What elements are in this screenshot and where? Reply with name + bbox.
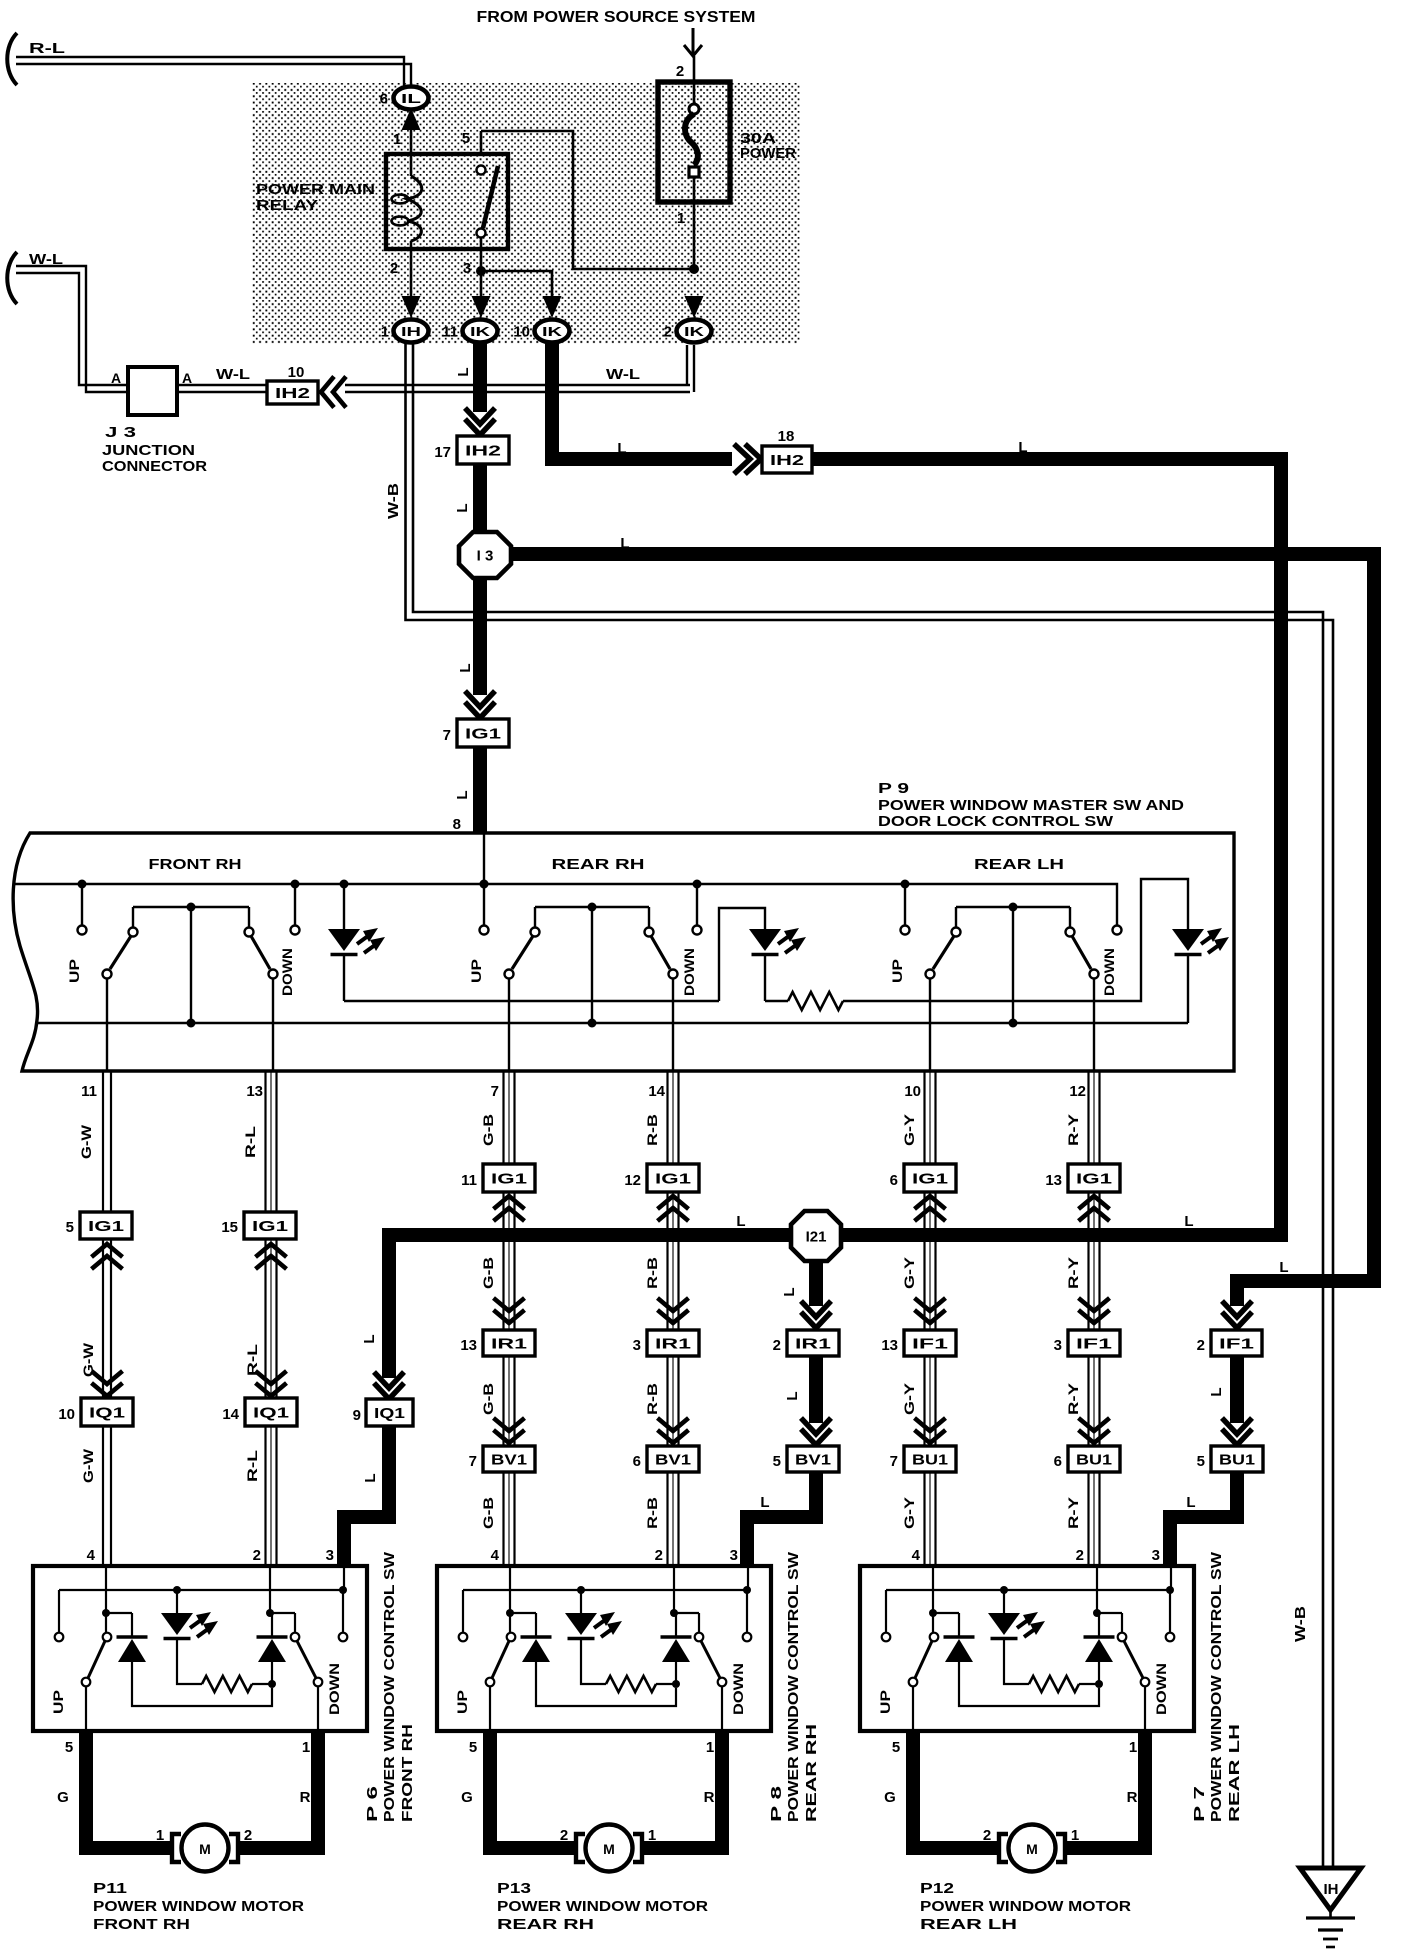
- svg-text:POWER: POWER: [740, 145, 796, 162]
- connector 5 IG1: [66, 1212, 132, 1239]
- svg-text:G-W: G-W: [80, 1448, 96, 1483]
- svg-text:2: 2: [560, 1827, 568, 1844]
- UP DOWN labels: [877, 1663, 1169, 1715]
- svg-text:1: 1: [1071, 1827, 1079, 1844]
- P9 FRONT RH switch: [66, 880, 300, 1072]
- svg-text:G-B: G-B: [480, 1497, 496, 1529]
- svg-text:IG1: IG1: [88, 1218, 124, 1235]
- wire W-B to ground: [406, 344, 1334, 1868]
- svg-text:REAR RH: REAR RH: [497, 1916, 594, 1933]
- svg-text:IG1: IG1: [465, 725, 501, 742]
- svg-text:UP: UP: [454, 1690, 470, 1714]
- svg-text:IL: IL: [401, 91, 421, 106]
- svg-text:G: G: [884, 1789, 896, 1806]
- svg-text:DOWN: DOWN: [730, 1663, 746, 1715]
- svg-text:IF1: IF1: [1076, 1335, 1112, 1352]
- pin 4 wire: [506, 1566, 514, 1633]
- svg-text:P 9: P 9: [878, 780, 909, 797]
- svg-text:R-L: R-L: [244, 1449, 260, 1482]
- svg-text:14: 14: [648, 1083, 665, 1100]
- svg-text:REAR LH: REAR LH: [1226, 1724, 1243, 1822]
- right stub contact: [743, 1566, 752, 1641]
- svg-text:FRONT RH: FRONT RH: [149, 856, 242, 873]
- svg-text:DOWN: DOWN: [1101, 948, 1117, 996]
- svg-text:18: 18: [778, 428, 795, 445]
- svg-text:DOOR LOCK CONTROL SW: DOOR LOCK CONTROL SW: [878, 813, 1114, 830]
- svg-text:IG1: IG1: [912, 1170, 948, 1187]
- svg-text:6: 6: [1054, 1453, 1062, 1470]
- wire L from IK 11: [473, 344, 487, 412]
- svg-text:POWER WINDOW MASTER SW AND: POWER WINDOW MASTER SW AND: [878, 797, 1184, 814]
- wire L 5BU1 to P7 pin 3: [1170, 1472, 1237, 1564]
- svg-text:UP: UP: [468, 959, 484, 983]
- svg-text:IQ1: IQ1: [253, 1404, 289, 1421]
- svg-text:13: 13: [246, 1083, 263, 1100]
- diode up-side: [510, 1613, 676, 1706]
- pin 2 wire and diode down-side: [1084, 1566, 1115, 1684]
- svg-text:R-Y: R-Y: [1065, 1496, 1081, 1529]
- UP switch arm: [909, 1633, 939, 1731]
- label POWER MAIN RELAY: [256, 181, 375, 214]
- svg-text:14: 14: [222, 1406, 239, 1423]
- svg-text:L: L: [784, 1391, 801, 1400]
- label P 8: [768, 1551, 820, 1822]
- ground IH: [1300, 1868, 1361, 1947]
- svg-text:UP: UP: [50, 1690, 66, 1714]
- inner bus: [59, 1586, 347, 1594]
- svg-text:11: 11: [461, 1172, 477, 1189]
- svg-text:9: 9: [353, 1407, 361, 1424]
- P9 REAR LH switch: [889, 880, 1122, 1072]
- svg-text:1: 1: [302, 1739, 310, 1756]
- svg-text:12: 12: [1069, 1083, 1086, 1100]
- UP switch arm: [82, 1633, 112, 1731]
- svg-text:5: 5: [66, 1219, 74, 1236]
- svg-text:M: M: [603, 1841, 615, 1857]
- svg-text:6: 6: [633, 1453, 641, 1470]
- label L: [455, 367, 472, 376]
- svg-text:IQ1: IQ1: [374, 1405, 405, 1422]
- svg-text:G: G: [461, 1789, 473, 1806]
- connector 5 BV1: [773, 1446, 839, 1472]
- svg-text:1: 1: [381, 324, 389, 341]
- svg-text:W-L: W-L: [29, 251, 63, 268]
- connector 10 IH2: [267, 364, 346, 408]
- svg-text:L: L: [1018, 439, 1027, 456]
- section titles: [149, 856, 1065, 873]
- svg-text:R-Y: R-Y: [1065, 1113, 1081, 1146]
- svg-text:R: R: [300, 1789, 311, 1806]
- svg-text:5: 5: [1197, 1453, 1205, 1470]
- svg-text:FRONT RH: FRONT RH: [93, 1916, 190, 1933]
- connector IH pin 1: [381, 320, 429, 343]
- fuse 30A POWER wire: [693, 56, 696, 268]
- svg-text:G-Y: G-Y: [901, 1256, 917, 1289]
- wire resistor to REAR LH LED: [843, 879, 1188, 1001]
- indicator LED: [988, 1590, 1045, 1684]
- svg-text:11: 11: [81, 1083, 97, 1100]
- svg-text:R-Y: R-Y: [1065, 1382, 1081, 1415]
- P 7 REAR LH power window control switch box: [860, 1566, 1194, 1731]
- diode up-side: [106, 1613, 272, 1706]
- arrow chevron to 9 IQ1: [374, 1372, 404, 1399]
- connector IK pin 2: [664, 320, 712, 343]
- svg-text:IH: IH: [401, 324, 421, 339]
- arrow chevron to 2 IF1: [1222, 1301, 1252, 1328]
- svg-text:L: L: [362, 1473, 379, 1482]
- svg-text:POWER WINDOW MOTOR: POWER WINDOW MOTOR: [920, 1898, 1131, 1915]
- arrow chevron to 5 BV1: [801, 1418, 831, 1445]
- arrow chevron to 7 IG1: [465, 691, 495, 718]
- svg-text:G-Y: G-Y: [901, 1496, 917, 1529]
- svg-text:G-B: G-B: [480, 1257, 496, 1289]
- svg-text:2: 2: [390, 260, 398, 277]
- svg-text:P11: P11: [93, 1880, 127, 1897]
- svg-text:12: 12: [624, 1172, 641, 1189]
- svg-text:IK: IK: [470, 324, 491, 339]
- svg-text:5: 5: [469, 1739, 477, 1756]
- svg-text:DOWN: DOWN: [1153, 1663, 1169, 1715]
- svg-text:UP: UP: [66, 959, 82, 983]
- P9 lower bus: [37, 1022, 1188, 1024]
- label W-B right: [1292, 1606, 1309, 1642]
- svg-text:R-B: R-B: [644, 1257, 660, 1289]
- DOWN switch arm: [272, 1613, 322, 1731]
- UP DOWN labels: [454, 1663, 746, 1715]
- svg-text:2: 2: [983, 1827, 991, 1844]
- wire L 2IF1 to 5 BU1: [1208, 1356, 1237, 1423]
- wire R-L column front RH down: [242, 1071, 277, 1566]
- arrow to IH: [402, 296, 421, 318]
- svg-text:1: 1: [1129, 1739, 1137, 1756]
- wire G to motor: [57, 1731, 173, 1848]
- pin 2 wire and diode down-side: [661, 1566, 692, 1684]
- wire G-B column rear RH up: [480, 1071, 515, 1566]
- svg-text:L: L: [454, 503, 471, 512]
- pin 4 wire: [929, 1566, 937, 1633]
- svg-text:2: 2: [676, 63, 684, 80]
- junction connector J3: [102, 367, 207, 475]
- svg-text:P 8: P 8: [768, 1786, 785, 1822]
- wire relay pin3 branch: [476, 266, 552, 296]
- svg-text:10: 10: [58, 1406, 75, 1423]
- pin 2 label of fuse: [676, 63, 684, 80]
- arrow chevrons G-W: [92, 1244, 123, 1396]
- svg-text:3: 3: [1152, 1547, 1160, 1564]
- svg-text:J 3: J 3: [105, 424, 136, 441]
- connector 5 BU1: [1197, 1446, 1263, 1472]
- svg-text:1: 1: [156, 1827, 164, 1844]
- svg-text:L: L: [1208, 1387, 1225, 1396]
- wire L 18IH2 to L bus: [361, 439, 1281, 1378]
- svg-text:15: 15: [221, 1219, 238, 1236]
- connector IL pin 6: [380, 87, 429, 110]
- svg-text:3: 3: [633, 1337, 641, 1354]
- arrow chevron to 2 IR1: [801, 1301, 831, 1328]
- svg-text:3: 3: [463, 260, 471, 277]
- svg-text:7: 7: [469, 1453, 477, 1470]
- P 8 REAR RH power window control switch box: [437, 1566, 771, 1731]
- svg-text:BV1: BV1: [491, 1451, 527, 1468]
- svg-text:DOWN: DOWN: [681, 948, 697, 996]
- wire G-W column front RH up: [78, 1071, 111, 1566]
- connector 17 IH2: [434, 436, 509, 464]
- svg-text:IR1: IR1: [795, 1335, 831, 1352]
- svg-text:IG1: IG1: [491, 1170, 527, 1187]
- P9 power window master switch box: [13, 833, 1234, 1071]
- title FROM POWER SOURCE SYSTEM: [477, 9, 756, 26]
- svg-text:REAR LH: REAR LH: [974, 856, 1064, 873]
- wire R-Y column rear LH down: [1065, 1071, 1100, 1566]
- svg-text:L: L: [1279, 1259, 1288, 1276]
- svg-text:POWER WINDOW MOTOR: POWER WINDOW MOTOR: [497, 1898, 708, 1915]
- P9 supply bus: [13, 884, 1117, 926]
- arrow into IL: [402, 108, 421, 176]
- svg-text:L: L: [361, 1334, 378, 1343]
- power main relay box: [386, 154, 508, 249]
- connector 2 IF1: [1197, 1330, 1262, 1356]
- wire W-L from IK 2: [345, 345, 694, 392]
- pin 2 wire and diode down-side: [257, 1566, 288, 1684]
- svg-text:R-L: R-L: [242, 1125, 258, 1158]
- wire G to motor: [884, 1731, 1000, 1848]
- wire relay pin5 to fuse: [481, 131, 699, 274]
- arrow chevron to 17 IH2: [465, 408, 495, 435]
- svg-text:1: 1: [648, 1827, 656, 1844]
- resistor: [788, 992, 843, 1010]
- svg-text:L: L: [454, 790, 471, 799]
- svg-text:2: 2: [253, 1547, 261, 1564]
- svg-text:G: G: [57, 1789, 69, 1806]
- right stub contact: [339, 1566, 348, 1641]
- svg-text:R: R: [1127, 1789, 1138, 1806]
- UP switch arm: [486, 1633, 516, 1731]
- svg-text:6: 6: [380, 91, 388, 108]
- svg-text:M: M: [199, 1841, 211, 1857]
- svg-text:IQ1: IQ1: [89, 1404, 125, 1421]
- svg-text:13: 13: [881, 1337, 898, 1354]
- svg-text:3: 3: [326, 1547, 334, 1564]
- svg-text:4: 4: [491, 1547, 500, 1564]
- wire G to motor: [461, 1731, 577, 1848]
- connector IK pin 11: [442, 320, 497, 343]
- left stub contact: [882, 1590, 891, 1641]
- svg-text:BU1: BU1: [1219, 1451, 1255, 1468]
- svg-text:G-Y: G-Y: [901, 1113, 917, 1146]
- svg-text:P 6: P 6: [364, 1786, 381, 1822]
- pin 4 wire: [102, 1566, 110, 1633]
- arrow chevron to 5 BU1: [1222, 1418, 1252, 1445]
- svg-text:JUNCTION: JUNCTION: [102, 442, 195, 459]
- svg-text:2: 2: [664, 324, 672, 341]
- svg-text:2: 2: [655, 1547, 663, 1564]
- left stub contact: [55, 1590, 64, 1641]
- svg-text:POWER WINDOW CONTROL SW: POWER WINDOW CONTROL SW: [381, 1551, 398, 1822]
- pin labels above control switches: [87, 1547, 1160, 1564]
- connector 14 IQ1: [222, 1398, 297, 1426]
- svg-text:P 7: P 7: [1191, 1786, 1208, 1822]
- svg-text:I 3: I 3: [477, 547, 494, 564]
- label P12: [920, 1880, 1131, 1933]
- svg-text:W-B: W-B: [385, 483, 402, 519]
- svg-text:L: L: [781, 1287, 798, 1296]
- svg-text:L: L: [620, 535, 629, 552]
- wire R-L from other system: [7, 33, 411, 87]
- svg-text:7: 7: [443, 727, 451, 744]
- wire R to motor: [642, 1731, 722, 1848]
- svg-text:W-L: W-L: [606, 366, 640, 383]
- svg-text:IF1: IF1: [1219, 1335, 1254, 1352]
- relay coil: [392, 176, 422, 296]
- connector 10 IQ1: [58, 1398, 133, 1426]
- svg-text:POWER WINDOW MOTOR: POWER WINDOW MOTOR: [93, 1898, 304, 1915]
- svg-text:REAR RH: REAR RH: [552, 856, 645, 873]
- svg-text:G-Y: G-Y: [901, 1382, 917, 1415]
- DOWN switch arm: [1099, 1613, 1149, 1731]
- svg-text:5: 5: [892, 1739, 900, 1756]
- P9 pin 8 wire: [483, 833, 485, 884]
- svg-text:5: 5: [773, 1453, 781, 1470]
- wire L 7IG1 to P9 pin 8: [453, 747, 480, 833]
- arrow from power source: [684, 28, 702, 56]
- svg-text:4: 4: [912, 1547, 921, 1564]
- wire G-Y column rear LH up: [901, 1071, 936, 1566]
- svg-text:R-B: R-B: [644, 1497, 660, 1529]
- P9 REAR RH indicator LED: [719, 908, 806, 1001]
- wire W-L J3 to IH2: [177, 366, 267, 392]
- P9 pin numbers: [81, 1083, 1086, 1100]
- motor P12: [983, 1825, 1079, 1872]
- indicator LED: [565, 1590, 622, 1684]
- wire L 9IQ1 to P6 pin 3: [344, 1426, 389, 1564]
- motor P11: [156, 1825, 252, 1872]
- svg-text:11: 11: [442, 324, 458, 341]
- svg-text:IG1: IG1: [655, 1170, 691, 1187]
- fuse 30A POWER: [658, 82, 796, 227]
- wire L I3 to 7 IG1: [457, 578, 480, 695]
- svg-text:R-B: R-B: [644, 1114, 660, 1146]
- svg-text:13: 13: [1045, 1172, 1062, 1189]
- svg-text:BV1: BV1: [795, 1451, 831, 1468]
- svg-text:L: L: [455, 367, 472, 376]
- wire L 5BV1 to P8 pin 3: [747, 1472, 816, 1564]
- stippled engine-compartment region: [252, 83, 800, 344]
- svg-text:DOWN: DOWN: [326, 1663, 342, 1715]
- svg-text:W-B: W-B: [1292, 1606, 1309, 1642]
- diode up-side: [933, 1613, 1099, 1706]
- svg-text:6: 6: [890, 1172, 898, 1189]
- right stub contact: [1166, 1566, 1175, 1641]
- svg-text:L: L: [1186, 1494, 1195, 1511]
- P9 REAR RH switch: [468, 880, 702, 1072]
- svg-text:L: L: [1184, 1213, 1193, 1230]
- P9 FRONT RH indicator LED: [328, 880, 719, 1002]
- label P 6: [364, 1551, 416, 1822]
- connector IK pin 10: [513, 320, 569, 343]
- svg-text:1: 1: [706, 1739, 714, 1756]
- motor P13: [560, 1825, 656, 1872]
- wire L 17IH2 to I3: [454, 464, 480, 535]
- svg-text:IK: IK: [684, 324, 705, 339]
- resistor: [202, 1676, 276, 1692]
- svg-text:5: 5: [65, 1739, 73, 1756]
- connector 2 IR1: [773, 1330, 839, 1356]
- arrow chevron to 18 IH2: [734, 444, 761, 474]
- svg-text:UP: UP: [889, 959, 905, 983]
- resistor: [1029, 1676, 1103, 1692]
- label P11: [93, 1880, 304, 1933]
- svg-text:I21: I21: [806, 1228, 827, 1245]
- indicator LED: [161, 1590, 218, 1684]
- junction I21: [791, 1211, 841, 1261]
- connector 7 IG1: [443, 719, 509, 747]
- connector 9 IQ1: [353, 1399, 413, 1426]
- UP DOWN labels: [50, 1663, 342, 1715]
- svg-text:REAR LH: REAR LH: [920, 1916, 1017, 1933]
- svg-text:8: 8: [453, 816, 461, 833]
- svg-text:IF1: IF1: [912, 1335, 948, 1352]
- svg-text:7: 7: [491, 1083, 499, 1100]
- svg-text:POWER WINDOW CONTROL SW: POWER WINDOW CONTROL SW: [1208, 1551, 1225, 1822]
- svg-text:IH2: IH2: [770, 452, 804, 469]
- svg-text:R: R: [704, 1789, 715, 1806]
- P9 REAR LH indicator LED: [1172, 928, 1229, 1023]
- svg-text:G-W: G-W: [78, 1124, 94, 1159]
- svg-text:2: 2: [1197, 1337, 1205, 1354]
- svg-text:5: 5: [462, 130, 470, 147]
- wire R-B column rear RH down: [644, 1071, 679, 1566]
- svg-text:1: 1: [393, 131, 401, 148]
- svg-text:2: 2: [1076, 1547, 1084, 1564]
- svg-text:IH2: IH2: [465, 442, 501, 459]
- arrow to IK 11: [472, 296, 491, 318]
- P 6 FRONT RH power window control switch box: [33, 1566, 367, 1731]
- svg-text:17: 17: [434, 444, 451, 461]
- svg-text:DOWN: DOWN: [279, 948, 295, 996]
- svg-text:M: M: [1026, 1841, 1038, 1857]
- svg-text:G-B: G-B: [480, 1383, 496, 1415]
- svg-text:7: 7: [890, 1453, 898, 1470]
- label P9: [878, 780, 1184, 830]
- svg-text:POWER MAIN: POWER MAIN: [256, 181, 375, 198]
- svg-text:P13: P13: [497, 1880, 531, 1897]
- svg-text:BU1: BU1: [912, 1451, 948, 1468]
- svg-text:2: 2: [244, 1827, 252, 1844]
- svg-text:10: 10: [904, 1083, 921, 1100]
- svg-text:R-L: R-L: [29, 40, 65, 57]
- svg-text:R-Y: R-Y: [1065, 1256, 1081, 1289]
- svg-text:BV1: BV1: [655, 1451, 691, 1468]
- svg-text:13: 13: [460, 1337, 477, 1354]
- arrow to IK 2: [685, 296, 704, 318]
- svg-text:R-B: R-B: [644, 1383, 660, 1415]
- svg-text:FROM POWER SOURCE SYSTEM: FROM POWER SOURCE SYSTEM: [477, 9, 756, 26]
- connector 18 IH2: [762, 428, 812, 473]
- svg-text:10: 10: [288, 364, 305, 381]
- svg-text:P12: P12: [920, 1880, 954, 1897]
- wire R to motor: [238, 1731, 318, 1848]
- wire L from IK 10 to 18 IH2: [552, 344, 732, 459]
- svg-text:BU1: BU1: [1076, 1451, 1112, 1468]
- inner bus: [463, 1586, 751, 1594]
- arrow chevrons R-L: [256, 1244, 287, 1396]
- svg-text:W-L: W-L: [216, 366, 250, 383]
- svg-text:IG1: IG1: [252, 1218, 288, 1235]
- inner bus: [886, 1586, 1174, 1594]
- svg-text:L: L: [617, 440, 626, 457]
- svg-text:IH: IH: [1324, 1881, 1339, 1898]
- svg-text:A: A: [182, 370, 192, 386]
